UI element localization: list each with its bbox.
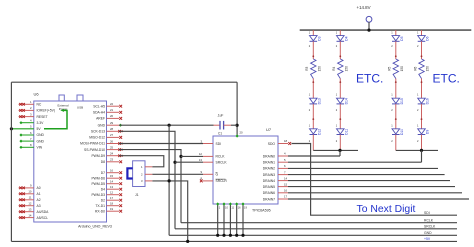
resistor R3 150 bbox=[305, 59, 321, 79]
svg-text:A0: A0 bbox=[37, 186, 41, 190]
+5V drop to U7 VCC bbox=[236, 82, 238, 136]
wire R6 to D16 bbox=[417, 79, 422, 99]
wire D14 to D11 bbox=[336, 104, 341, 129]
U6 left pin 8 VIN bbox=[19, 143, 42, 149]
U6 left pin 7 GND bbox=[19, 137, 44, 143]
green IOREF-to-5V jumper annotation bbox=[44, 109, 67, 129]
GND bus label bbox=[424, 231, 432, 235]
wire rail to D4 bbox=[336, 30, 341, 35]
U7 bottom GND pin 11 bbox=[229, 202, 235, 237]
U7 SRCLR x-mark bbox=[200, 180, 203, 183]
svg-text:18: 18 bbox=[284, 139, 288, 143]
GND bottom bus wire bbox=[169, 234, 457, 236]
svg-text:GND: GND bbox=[37, 133, 45, 137]
svg-text:A5/SCL: A5/SCL bbox=[37, 216, 49, 220]
U7 pin 13 SRCLK bbox=[199, 158, 228, 165]
junction GND/J1 pin3 bbox=[168, 179, 171, 182]
U6 right pin 13 D4 bbox=[101, 185, 122, 191]
svg-text:21: 21 bbox=[110, 108, 114, 112]
svg-text:Arduino_UNO_REV3: Arduino_UNO_REV3 bbox=[78, 225, 112, 229]
junction SRCLK bbox=[173, 161, 176, 164]
svg-text:14: 14 bbox=[284, 176, 288, 180]
U7 VCC pin 20 bbox=[236, 131, 244, 138]
svg-text:D11: D11 bbox=[345, 129, 349, 135]
U6 right pin 25 SS-PWM-D10 bbox=[84, 145, 123, 151]
svg-text:11: 11 bbox=[29, 196, 32, 200]
wire 5V pin to left rail bbox=[11, 128, 33, 130]
SRCLK bus wire bbox=[175, 228, 457, 230]
+5V left vertical wire bbox=[10, 82, 12, 241]
svg-text:RX-D0: RX-D0 bbox=[95, 209, 105, 213]
U6 right pin 29 GND bbox=[98, 121, 123, 127]
svg-text:TX-D1: TX-D1 bbox=[95, 204, 105, 208]
svg-text:DRAIN1: DRAIN1 bbox=[263, 161, 275, 165]
LED D5 bbox=[392, 36, 404, 42]
U6 left pin 2 IOREF(+5V) bbox=[19, 106, 56, 112]
U7 bottom GND pin 19 bbox=[241, 202, 247, 237]
U6 right pin 20 AREF bbox=[96, 114, 122, 120]
svg-text:RESET: RESET bbox=[37, 115, 48, 119]
wire R3 to D13 bbox=[309, 79, 314, 99]
wire D4 to R4 bbox=[336, 41, 341, 59]
svg-text:D7: D7 bbox=[101, 171, 105, 175]
U6 left pin 3 RESET bbox=[19, 112, 48, 118]
connector J1 body bbox=[127, 161, 145, 187]
svg-text:D3: D3 bbox=[318, 36, 322, 40]
wire D5 to R5 bbox=[391, 41, 396, 59]
U7 pin 8 SRCLR bbox=[200, 177, 227, 184]
svg-text:15: 15 bbox=[284, 182, 288, 186]
svg-text:26: 26 bbox=[110, 139, 114, 143]
U6 right pin 19 RX-D0 bbox=[95, 207, 122, 213]
U6 left pin 13 A4/SDA bbox=[19, 208, 50, 214]
wire D11 to bracket bbox=[336, 135, 341, 151]
svg-text:17: 17 bbox=[284, 195, 288, 199]
capacitor C1 bbox=[214, 114, 238, 136]
shift register U7 body bbox=[213, 136, 278, 204]
+5V top horizontal wire bbox=[11, 81, 237, 83]
ETC. text right bbox=[433, 71, 460, 85]
U7 pin 12 RCLK bbox=[199, 152, 225, 159]
RCLK bus wire bbox=[181, 222, 457, 224]
svg-text:150: 150 bbox=[400, 66, 404, 72]
RCLK wire to U7 bbox=[181, 155, 203, 157]
PWM-D9 wire to J1 pin1 bbox=[119, 156, 164, 167]
svg-text:SDI: SDI bbox=[216, 142, 222, 146]
GND wire from U6 pin 29 bbox=[119, 124, 214, 126]
LED D12 bbox=[310, 129, 322, 135]
junction GND vertical bbox=[168, 124, 171, 127]
pair1 bottom bracket bbox=[313, 149, 358, 151]
LED D11 bbox=[337, 129, 349, 135]
svg-text:SRCLR: SRCLR bbox=[216, 179, 228, 183]
svg-text:D15: D15 bbox=[400, 98, 404, 104]
svg-text:R4: R4 bbox=[332, 66, 336, 70]
svg-text:16: 16 bbox=[110, 169, 114, 173]
svg-text:D2: D2 bbox=[101, 198, 105, 202]
wire D10 to bracket bbox=[391, 135, 396, 151]
resistor R5 150 bbox=[388, 59, 404, 79]
junction pair1 bbox=[338, 149, 341, 152]
U7 pin 9 G bbox=[200, 170, 218, 177]
RCLK bus label bbox=[424, 218, 434, 222]
svg-text:SRCLK: SRCLK bbox=[424, 225, 436, 229]
svg-text:18: 18 bbox=[110, 202, 114, 206]
svg-text:A2: A2 bbox=[37, 198, 41, 202]
svg-text:U6: U6 bbox=[34, 92, 40, 97]
U7 pin 3 SDI bbox=[200, 139, 221, 146]
svg-text:13: 13 bbox=[199, 158, 203, 162]
svg-text:25: 25 bbox=[110, 145, 114, 149]
U6 right pin 15 PWM-D6 bbox=[91, 174, 122, 180]
svg-text:12: 12 bbox=[28, 202, 32, 206]
svg-text:ETC.: ETC. bbox=[356, 71, 383, 85]
svg-text:22: 22 bbox=[110, 102, 114, 106]
svg-text:DRAIN5: DRAIN5 bbox=[263, 185, 275, 189]
svg-text:24: 24 bbox=[110, 152, 114, 156]
svg-text:D5: D5 bbox=[400, 36, 404, 40]
U7 bottom GND pin 10 bbox=[222, 202, 228, 237]
wire rail to D6 bbox=[417, 30, 422, 35]
svg-text:D4: D4 bbox=[101, 187, 105, 191]
ETC. text left bbox=[356, 71, 383, 85]
LED D4 bbox=[337, 36, 349, 42]
svg-text:16: 16 bbox=[284, 189, 288, 193]
svg-text:VIN: VIN bbox=[37, 146, 43, 150]
svg-text:.1uF: .1uF bbox=[217, 114, 223, 118]
svg-text:ETC.: ETC. bbox=[433, 71, 460, 85]
U7 pin 14 DRAIN4 bbox=[263, 176, 450, 183]
U6 left pin 6 GND bbox=[19, 131, 44, 137]
resistor R4 150 bbox=[332, 59, 348, 79]
svg-text:R5: R5 bbox=[388, 66, 392, 70]
svg-text:DRAIN0: DRAIN0 bbox=[263, 154, 275, 158]
U6 left pin 14 A5/SCL bbox=[19, 213, 49, 219]
U6 right pin 23 D8 bbox=[101, 158, 122, 164]
svg-text:150: 150 bbox=[426, 66, 430, 72]
pair2 tap to DRAIN1 bbox=[421, 150, 423, 162]
svg-text:PWM-D5: PWM-D5 bbox=[91, 182, 105, 186]
SRCLK wire to U7 bbox=[175, 161, 203, 163]
SCK-D13 to SRCLK wire bbox=[119, 131, 175, 229]
U7 pin 6 DRAIN2 bbox=[263, 164, 438, 171]
U6 left pin 10 A1 bbox=[19, 190, 41, 196]
svg-text:NC: NC bbox=[37, 103, 42, 107]
wire rail to D5 bbox=[391, 30, 396, 35]
pair1 tap to DRAIN0 bbox=[339, 150, 341, 156]
svg-text:20: 20 bbox=[240, 131, 244, 135]
SDO wire to next-digit SDI bbox=[292, 144, 458, 216]
svg-text:29: 29 bbox=[110, 121, 114, 125]
U7 refdes bbox=[266, 127, 272, 132]
+14.8V power rail bbox=[300, 29, 472, 31]
svg-text:150: 150 bbox=[344, 66, 348, 72]
U6 right pin 17 D2 bbox=[101, 196, 122, 202]
svg-text:DRAIN3: DRAIN3 bbox=[263, 173, 275, 177]
svg-text:USB: USB bbox=[77, 106, 83, 110]
U6 right pin 24 PWM-D9 bbox=[91, 152, 123, 158]
wire D9 to bracket bbox=[417, 135, 422, 151]
svg-text:TPIC6A595: TPIC6A595 bbox=[252, 209, 271, 213]
+14.8V power symbol bbox=[357, 5, 372, 30]
SS-D10 to RCLK wire bbox=[119, 150, 181, 223]
svg-text:AREF: AREF bbox=[96, 117, 105, 121]
svg-text:D9: D9 bbox=[426, 130, 430, 134]
svg-text:14: 14 bbox=[110, 180, 114, 184]
svg-text:23: 23 bbox=[110, 158, 114, 162]
svg-text:SCL-A5: SCL-A5 bbox=[93, 104, 105, 108]
U7 pin 4 DRAIN0 bbox=[263, 152, 340, 159]
svg-text:27: 27 bbox=[110, 133, 114, 137]
svg-text:D8: D8 bbox=[101, 160, 105, 164]
junction 5V/left rail bbox=[10, 127, 13, 130]
junction RCLK bbox=[179, 155, 182, 158]
U6 right pin 28 SCK-D13 bbox=[91, 127, 123, 133]
U6 right pin 14 PWM-D5 bbox=[91, 180, 122, 186]
To Next Digit text bbox=[357, 204, 416, 215]
svg-text:D16: D16 bbox=[426, 98, 430, 104]
svg-text:D6: D6 bbox=[426, 36, 430, 40]
svg-text:D13: D13 bbox=[318, 98, 322, 104]
U6 right pin 12 PWM-D3 bbox=[91, 191, 122, 197]
svg-text:SCK-D13: SCK-D13 bbox=[91, 130, 105, 134]
svg-text:GND: GND bbox=[37, 139, 45, 143]
J1 pin 3 bbox=[141, 179, 152, 183]
svg-text:MOSI-PWM-D11: MOSI-PWM-D11 bbox=[80, 142, 105, 146]
wire D3 to R3 bbox=[309, 41, 314, 59]
wire rail to D3 bbox=[309, 30, 314, 35]
svg-text:28: 28 bbox=[110, 127, 114, 131]
SRCLK bus label bbox=[424, 225, 436, 229]
J1 refdes bbox=[135, 193, 139, 197]
svg-text:G: G bbox=[216, 173, 219, 177]
svg-text:SDI: SDI bbox=[424, 211, 430, 215]
wire D15 to D10 bbox=[391, 104, 396, 129]
svg-text:SRCLK: SRCLK bbox=[216, 161, 228, 165]
+5V bus label bbox=[424, 237, 431, 241]
svg-text:14: 14 bbox=[28, 213, 32, 217]
svg-text:GND: GND bbox=[424, 231, 432, 235]
junction pair2 bbox=[420, 149, 423, 152]
SDI bus label bbox=[424, 211, 430, 215]
svg-text:PWM-D9: PWM-D9 bbox=[91, 154, 105, 158]
svg-text:DRAIN7: DRAIN7 bbox=[263, 197, 275, 201]
svg-text:SS-PWM-D10: SS-PWM-D10 bbox=[84, 148, 105, 152]
junction power rail bbox=[367, 29, 370, 32]
svg-text:RCLK: RCLK bbox=[424, 218, 434, 222]
svg-text:R6: R6 bbox=[413, 66, 417, 70]
svg-text:SDO: SDO bbox=[268, 142, 276, 146]
svg-text:R3: R3 bbox=[305, 66, 309, 70]
wire D12 to bracket bbox=[309, 135, 314, 151]
svg-text:A4/SDA: A4/SDA bbox=[37, 210, 50, 214]
svg-text:+14.8V: +14.8V bbox=[357, 5, 371, 10]
U7 pin 17 DRAIN7 bbox=[263, 195, 469, 202]
svg-text:D14: D14 bbox=[345, 98, 349, 104]
svg-text:PWM-D3: PWM-D3 bbox=[91, 193, 105, 197]
svg-text:20: 20 bbox=[110, 114, 114, 118]
U6 left pin 1 NC bbox=[19, 100, 42, 106]
junction +5V bus bbox=[186, 240, 189, 243]
svg-text:PWM-D6: PWM-D6 bbox=[91, 176, 105, 180]
resistor R6 150 bbox=[413, 59, 429, 79]
U7 TPIC6A595 label bbox=[252, 209, 271, 213]
svg-text:D12: D12 bbox=[318, 129, 322, 135]
U6 left pin 11 A2 bbox=[19, 196, 41, 202]
svg-text:IOREF(+5V): IOREF(+5V) bbox=[37, 109, 56, 113]
U6 right pin 22 SCL-A5 bbox=[93, 102, 122, 108]
LED D3 bbox=[310, 36, 322, 42]
svg-text:12: 12 bbox=[110, 191, 114, 195]
svg-text:DRAIN2: DRAIN2 bbox=[263, 167, 275, 171]
svg-text:12: 12 bbox=[199, 152, 203, 156]
svg-text:D4: D4 bbox=[345, 36, 349, 40]
U7 pin 7 DRAIN3 bbox=[263, 170, 445, 177]
svg-text:DRAIN4: DRAIN4 bbox=[263, 179, 275, 183]
svg-text:17: 17 bbox=[110, 196, 114, 200]
U6 left pin 4 3.3V bbox=[19, 119, 44, 125]
svg-text:A3: A3 bbox=[37, 204, 41, 208]
junction +5V/C1 bbox=[236, 124, 239, 127]
wire R5 to D15 bbox=[391, 79, 396, 99]
GND vertical wire bbox=[168, 125, 170, 235]
LED D6 bbox=[418, 36, 430, 42]
LED D9 bbox=[418, 129, 430, 135]
LED D14 bbox=[337, 98, 349, 104]
U7 bottom GND pin 16 bbox=[235, 202, 241, 237]
U7 pin 5 DRAIN1 bbox=[263, 158, 422, 165]
svg-text:RCLK: RCLK bbox=[216, 155, 226, 159]
LED D16 bbox=[418, 98, 430, 104]
J1 pin2 to G wire bbox=[152, 173, 203, 175]
U6 right pin 18 TX-D1 bbox=[95, 202, 122, 208]
svg-text:GND: GND bbox=[98, 123, 106, 127]
U6 right pin 27 MISO-D12 bbox=[89, 133, 122, 139]
svg-text:150: 150 bbox=[317, 66, 321, 72]
svg-text:10: 10 bbox=[28, 190, 32, 194]
LED D10 bbox=[392, 129, 404, 135]
svg-text:13: 13 bbox=[110, 185, 114, 189]
U7 pin 15 DRAIN5 bbox=[263, 182, 455, 189]
U7 bottom GND pin 1 bbox=[216, 202, 221, 237]
svg-text:A1: A1 bbox=[37, 192, 41, 196]
svg-text:15: 15 bbox=[110, 174, 114, 178]
U6 left pin 9 A0 bbox=[19, 184, 41, 190]
LED D13 bbox=[310, 98, 322, 104]
svg-text:+5V: +5V bbox=[424, 237, 431, 241]
svg-text:To Next Digit: To Next Digit bbox=[357, 204, 416, 215]
Arduino_UNO_REV3 label bbox=[78, 225, 112, 229]
wire D13 to D12 bbox=[309, 104, 314, 129]
U6 refdes bbox=[34, 92, 40, 97]
U6 right pin 16 D7 bbox=[101, 169, 122, 175]
U7 pin 16 DRAIN6 bbox=[263, 189, 462, 196]
LED D15 bbox=[392, 98, 404, 104]
svg-text:DRAIN6: DRAIN6 bbox=[263, 191, 275, 195]
svg-text:19: 19 bbox=[110, 207, 114, 211]
wire D16 to D9 bbox=[417, 104, 422, 129]
svg-text:D10: D10 bbox=[400, 129, 404, 135]
+5V bottom bus wire bbox=[11, 240, 457, 242]
Arduino U6 body bbox=[34, 95, 107, 222]
J1 pin3 GND wire bbox=[152, 181, 187, 242]
svg-text:MISO-D12: MISO-D12 bbox=[89, 136, 105, 140]
U7 pin 18 SDO bbox=[268, 139, 291, 146]
J1 pin 2 bbox=[141, 173, 152, 177]
svg-text:SDA-A4: SDA-A4 bbox=[93, 111, 105, 115]
U6 right pin 21 SDA-A4 bbox=[93, 108, 122, 114]
U6 left pin 5 5V bbox=[30, 125, 41, 131]
MOSI-D11 to SDI wire bbox=[119, 143, 203, 145]
U6 right pin 26 MOSI-PWM-D11 bbox=[80, 139, 123, 145]
svg-text:3.3V: 3.3V bbox=[37, 121, 45, 125]
svg-text:U7: U7 bbox=[266, 127, 272, 132]
wire D6 to R6 bbox=[417, 41, 422, 59]
svg-text:C1: C1 bbox=[218, 132, 222, 136]
wire R4 to D14 bbox=[336, 79, 341, 99]
svg-text:J1: J1 bbox=[135, 193, 139, 197]
U6 left pin 12 A3 bbox=[19, 202, 41, 208]
svg-text:13: 13 bbox=[28, 208, 32, 212]
J1 pin 1 bbox=[141, 165, 152, 169]
pair2 bottom bracket bbox=[396, 149, 438, 151]
